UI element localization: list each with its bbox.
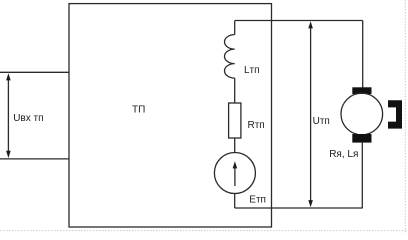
wire to motor top	[362, 21, 364, 89]
wire inductor to resistor	[234, 78, 236, 103]
inductor Ltp	[224, 35, 234, 79]
converter block TP box	[69, 4, 272, 227]
wire input bottom	[0, 158, 69, 160]
source Etp (circle with up arrow)	[214, 153, 255, 194]
arrow Utp (double-headed, between rails)	[308, 21, 313, 207]
wire to inductor	[234, 21, 236, 35]
wire motor bottom	[361, 143, 363, 208]
field winding bracket	[388, 100, 402, 128]
svg-text:Rтп: Rтп	[248, 120, 265, 131]
wire input top	[0, 71, 69, 73]
svg-text:ТП: ТП	[132, 104, 145, 115]
resistor Rtp	[229, 103, 241, 138]
wire source to bottom	[234, 194, 236, 209]
motor armature circle	[341, 93, 383, 135]
wire inner bottom	[235, 207, 363, 209]
motor brush bottom	[352, 134, 371, 143]
svg-text:Uвх тп: Uвх тп	[13, 113, 43, 124]
wire inner top	[235, 20, 363, 22]
svg-text:Rя, Lя: Rя, Lя	[329, 149, 358, 160]
svg-text:Lтп: Lтп	[244, 65, 260, 76]
arrow Uvx tp (input voltage, double-headed)	[6, 73, 11, 158]
wire resistor to source	[234, 138, 236, 153]
svg-text:Eтп: Eтп	[249, 194, 266, 205]
motor brush top	[352, 87, 371, 94]
svg-text:Uтп: Uтп	[313, 116, 330, 127]
